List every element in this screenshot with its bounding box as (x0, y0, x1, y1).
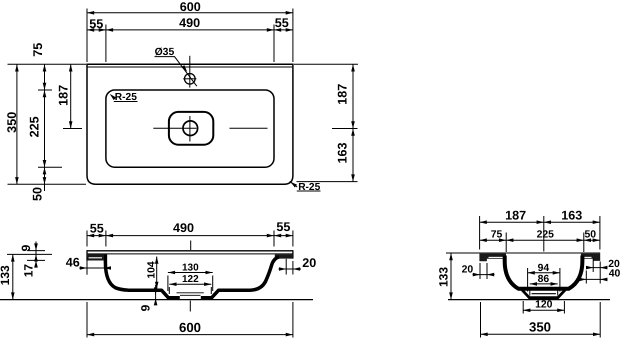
dimension 46 (left ledge) (86, 257, 88, 275)
svg-text:490: 490 (173, 221, 194, 235)
svg-text:600: 600 (179, 320, 201, 335)
svg-text:75: 75 (491, 229, 503, 240)
right rim hook (section) (581, 254, 600, 261)
svg-text:163: 163 (561, 208, 582, 222)
svg-text:20: 20 (302, 256, 316, 270)
dimension 187 (plan left) (63, 128, 82, 130)
svg-text:187: 187 (57, 85, 71, 106)
dimension column 75 / 225 / 50 (plan left) (38, 89, 52, 91)
dimension 75 / 225 / 50 (side) (505, 233, 507, 253)
dimension 40 (side right wall) (585, 271, 587, 284)
bowl outline (plan) (106, 90, 274, 167)
svg-text:122: 122 (182, 274, 199, 285)
svg-text:17: 17 (21, 264, 35, 278)
dimension 133 (side left) (450, 253, 452, 300)
drain vertical centerline (189, 116, 191, 142)
ground reference line (side) (448, 299, 610, 301)
basin back edge line (88, 66, 293, 68)
basin wall section (front) (105, 254, 279, 298)
rim top surface line (side) (446, 252, 600, 254)
svg-text:490: 490 (179, 16, 200, 30)
drain horizontal centerline (153, 127, 196, 129)
svg-text:86: 86 (538, 274, 550, 285)
svg-text:133: 133 (0, 265, 12, 285)
left rim hook (section) (479, 254, 506, 262)
dimension 9 (drain boss height) (155, 285, 157, 305)
svg-text:55: 55 (276, 220, 290, 234)
svg-text:225: 225 (537, 229, 555, 240)
svg-text:55: 55 (89, 17, 103, 31)
svg-text:187: 187 (505, 209, 526, 223)
dimension 86 (side drain) (529, 287, 531, 296)
dimension 122 (drain opening) (168, 287, 170, 294)
basin outer rim (plan) (87, 64, 293, 184)
drain opening thin lines (front) (177, 292, 204, 294)
svg-text:104: 104 (146, 261, 157, 279)
svg-text:225: 225 (28, 116, 42, 137)
dimension 104 (bowl depth) (156, 257, 158, 289)
dimension 17 (apron depth) (27, 259, 45, 261)
svg-text:187: 187 (335, 84, 349, 105)
dimension 20 (side left hook) (479, 263, 481, 279)
svg-text:55: 55 (275, 16, 289, 30)
svg-text:600: 600 (180, 0, 201, 14)
label R-25 at bowl corner (108, 93, 116, 101)
dimension 130 (drain recess) (167, 276, 169, 292)
drain recess (plan) (169, 112, 213, 145)
svg-text:46: 46 (66, 255, 80, 269)
faucet horizontal tick (183, 78, 196, 80)
drain recess (side) (522, 289, 566, 297)
dimension 55 / 490 / 55 (plan) (105, 25, 107, 63)
svg-text:9: 9 (139, 304, 153, 311)
label O35 text (155, 47, 175, 58)
dimension 94 (side drain) (527, 268, 529, 292)
svg-text:75: 75 (31, 43, 45, 57)
svg-text:120: 120 (535, 299, 553, 310)
dimension 9 (rim thickness) (27, 250, 45, 252)
svg-text:50: 50 (585, 229, 597, 240)
dimension 55 / 490 / 55 (front top) (86, 231, 88, 247)
svg-text:130: 130 (182, 262, 199, 273)
svg-text:50: 50 (30, 187, 44, 201)
svg-text:350: 350 (529, 319, 551, 334)
basin wall section (side) (505, 256, 583, 289)
svg-text:350: 350 (5, 112, 19, 133)
right rim edge (292, 250, 294, 258)
dimension 120 (side drain boss) (522, 301, 524, 314)
dimension 133 (front left) (7, 253, 52, 255)
svg-text:40: 40 (609, 269, 621, 280)
svg-text:133: 133 (437, 267, 451, 287)
dimension 20 (side right hook) (592, 259, 594, 273)
rim underside line (87, 253, 293, 255)
left rim edge (86, 250, 88, 260)
svg-text:9: 9 (19, 244, 33, 251)
dimension 600 (plan top) (86, 9, 88, 63)
dimension 600 (front bottom) (86, 302, 88, 338)
label R-25 at outer bottom-right corner (290, 181, 298, 187)
drain hole (183, 121, 198, 136)
left apron block (section) (87, 254, 104, 261)
rim top surface line (87, 250, 293, 252)
faucet vertical centerline (189, 56, 191, 88)
right under-rim band (section) (275, 254, 293, 258)
dimension 350 (side bottom) (480, 302, 482, 338)
svg-text:20: 20 (462, 265, 474, 276)
dimension 187 / 163 (plan right) (294, 63, 358, 65)
drain plate line (side) (532, 293, 556, 295)
faucet hole (185, 74, 196, 85)
dimension 187 / 163 (side top) (479, 216, 481, 250)
label O35 leader (174, 56, 197, 86)
dimension 350 (plan left) (8, 63, 87, 65)
svg-text:94: 94 (538, 263, 550, 274)
svg-text:55: 55 (90, 222, 104, 236)
dimension 20 (right overhang) (285, 259, 287, 275)
drain centerline below basin (189, 301, 191, 312)
ground reference line (front) (0, 299, 313, 301)
svg-text:163: 163 (335, 142, 349, 163)
